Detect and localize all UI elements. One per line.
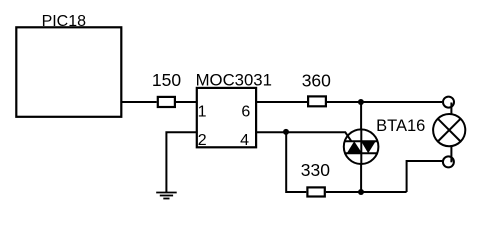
node junction gate <box>283 129 289 135</box>
svg-text:4: 4 <box>240 132 249 149</box>
optocoupler U2 MOC3031 box <box>197 88 256 147</box>
resistor R3 box <box>307 187 324 196</box>
node junction top <box>358 99 364 105</box>
triac Q1 left triangle <box>347 141 362 153</box>
resistor R1 box <box>158 97 175 107</box>
svg-text:1: 1 <box>198 104 207 121</box>
svg-text:2: 2 <box>198 132 207 149</box>
wire rail up to bottom terminal <box>407 161 443 192</box>
triac Q1 right triangle <box>361 141 376 153</box>
triac Q1 top bar <box>345 140 378 142</box>
wire pin 2 to ground <box>166 132 196 192</box>
wire R1 to U2 pin 1 <box>176 101 197 103</box>
triac Q1 circle <box>344 129 379 164</box>
node junction bottom <box>358 189 364 195</box>
svg-text:MOC3031: MOC3031 <box>196 71 272 90</box>
wire junction to triac MT2 <box>360 102 362 130</box>
wire top terminal to lamp <box>450 103 452 116</box>
svg-text:360: 360 <box>302 70 331 90</box>
terminal bottom <box>443 156 454 167</box>
lamp L1 cross <box>438 119 461 142</box>
wire R3 to triac MT1 rail <box>326 191 407 193</box>
IC U1 PIC18 box <box>16 27 121 117</box>
svg-text:150: 150 <box>152 70 181 90</box>
resistor R2 box <box>308 96 326 106</box>
wire junction down to R3 <box>286 132 306 192</box>
svg-text:BTA16: BTA16 <box>376 117 425 135</box>
svg-text:330: 330 <box>301 160 330 180</box>
wire pin 6 to R2 <box>256 101 307 103</box>
wire triac bottom to rail <box>360 164 362 192</box>
lamp L1 circle <box>433 114 465 146</box>
wire pin 4 to triac gate <box>256 132 351 141</box>
wire R2 to top terminal <box>327 101 442 103</box>
triac Q1 internal vertical <box>360 129 362 164</box>
wire lamp to bottom terminal <box>450 146 452 162</box>
terminal top <box>443 97 454 108</box>
svg-text:PIC18: PIC18 <box>42 13 87 30</box>
triac Q1 bottom bar <box>345 152 378 154</box>
svg-text:6: 6 <box>241 104 250 121</box>
wire PIC18 to R1 <box>121 101 156 103</box>
ground symbol <box>156 193 177 199</box>
